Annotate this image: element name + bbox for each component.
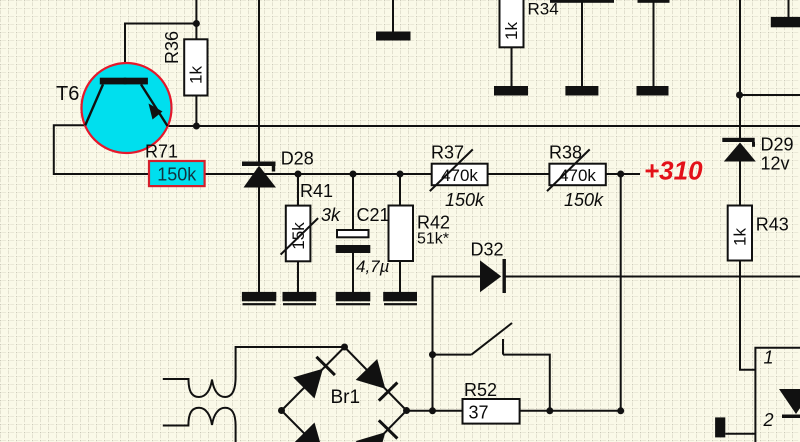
- node switch pivot: [429, 351, 436, 358]
- wire C21 bottom to ground: [352, 253, 354, 292]
- svg-text:R42: R42: [417, 213, 450, 233]
- wire D32 cathode to right edge: [505, 276, 800, 278]
- junction node dots: [193, 20, 743, 414]
- svg-text:51k*: 51k*: [417, 231, 449, 248]
- node bottom rail right: [617, 407, 624, 414]
- svg-text:D32: D32: [471, 240, 504, 260]
- bridge diode bottom-right: [356, 420, 398, 442]
- node bottom rail left: [429, 407, 436, 414]
- node bridge top: [341, 344, 348, 351]
- wire from node at (739.5,95) to right edge: [740, 94, 800, 96]
- wire lower rail R71 to R37: [205, 173, 432, 175]
- svg-text:1k: 1k: [187, 66, 206, 84]
- svg-text:R43: R43: [756, 215, 789, 235]
- wire stub top right: [788, 0, 790, 17]
- winding primary top: [163, 377, 236, 397]
- wire switch output: [503, 355, 550, 411]
- svg-text:R41: R41: [300, 181, 333, 201]
- wire D28 bottom to ground: [258, 187, 260, 293]
- svg-text:1k: 1k: [731, 228, 750, 246]
- wire switch pivot lead: [433, 354, 472, 356]
- wire main horizontal rail y=126: [166, 125, 800, 127]
- node bridge left: [278, 407, 285, 414]
- optocoupler box U outline: [755, 348, 800, 442]
- wire R41 bottom to ground: [297, 261, 299, 292]
- resistor R71 (highlighted): [149, 161, 205, 186]
- wire R52 to x=620 node: [520, 410, 621, 412]
- wire switch blade: [472, 323, 513, 355]
- capacitor plate bar near pin2: [715, 417, 725, 437]
- svg-text:2: 2: [763, 410, 774, 430]
- wire R41 top: [297, 174, 299, 206]
- top edge bar x=653 net: [638, 0, 670, 3]
- svg-text:R38: R38: [549, 143, 582, 163]
- svg-text:15k: 15k: [289, 222, 308, 250]
- wire R43 bottom to opto pin1: [740, 261, 755, 370]
- ground bar under x=393 stub: [376, 32, 411, 41]
- node bottom rail mid: [546, 407, 553, 414]
- node R41 top: [295, 171, 302, 178]
- wire bridge edge left-top: [282, 347, 345, 411]
- wire vertical through R36 top junction: [195, 0, 197, 39]
- svg-text:150k: 150k: [445, 190, 485, 210]
- wire T6 base up and right to junction: [125, 24, 196, 81]
- wire opto pin2: [725, 433, 755, 435]
- wire R42 bottom to ground: [399, 261, 401, 292]
- wire R42 top: [399, 174, 401, 206]
- wire T6 collector left and down to R71: [54, 125, 149, 174]
- diode D32: [480, 259, 506, 293]
- bridge diode bottom-left: [293, 423, 335, 442]
- wire vertical D28 net top: [258, 0, 260, 162]
- winding primary bottom: [163, 408, 236, 442]
- bridge rectifier Br1 diode top-left: [293, 357, 335, 399]
- resistor R38 (adjustable): [547, 149, 606, 191]
- svg-text:12v: 12v: [761, 154, 790, 174]
- wire stub x=653.5: [653, 3, 655, 87]
- resistor R37 (adjustable): [430, 149, 488, 191]
- wire bridge edge left-bottom: [282, 411, 345, 442]
- svg-text:R71: R71: [145, 142, 178, 162]
- bridge diode top-right: [356, 359, 398, 401]
- capacitor C21: [336, 230, 371, 253]
- wire bridge top node to winding: [236, 347, 345, 377]
- wire vertical from +310 node down: [620, 174, 622, 411]
- wire R36 bottom to main rail: [195, 96, 197, 127]
- svg-text:R37: R37: [431, 143, 464, 163]
- svg-text:C21: C21: [357, 205, 390, 225]
- wire D32 anode side: [433, 277, 481, 411]
- node R36 bottom on rail: [193, 123, 200, 130]
- svg-text:D29: D29: [761, 135, 794, 155]
- svg-text:1k: 1k: [502, 22, 521, 40]
- svg-text:3k: 3k: [321, 205, 341, 225]
- wire switch fixed contact: [502, 339, 504, 355]
- wire R38 to +310 node: [606, 173, 640, 175]
- node D29 top tap: [736, 92, 743, 99]
- top edge bar x=582 net: [550, 0, 614, 3]
- resistor R43: [728, 206, 752, 261]
- svg-text:37: 37: [469, 403, 489, 423]
- ground bar under x=582 stub: [565, 86, 598, 96]
- ground under C21: [336, 292, 371, 305]
- ground bar under R34: [494, 86, 528, 96]
- wire bridge edge top-right: [345, 347, 407, 411]
- resistor R34: [500, 0, 524, 47]
- svg-text:R52: R52: [464, 380, 497, 400]
- svg-text:150k: 150k: [564, 190, 604, 210]
- transistor T6: [82, 63, 172, 153]
- wire vertical D29/R43 net: [739, 0, 741, 138]
- node R42 top: [397, 171, 404, 178]
- ground under D28: [242, 292, 276, 305]
- svg-text:1: 1: [764, 348, 774, 368]
- node bridge right: [403, 407, 410, 414]
- node C21 top: [350, 171, 357, 178]
- ground bar under x=653 stub: [637, 86, 669, 96]
- resistor R52: [463, 399, 520, 424]
- node base/R36 top: [193, 20, 200, 27]
- svg-text:Br1: Br1: [331, 387, 361, 408]
- wire bridge edge bottom-right: [345, 411, 407, 442]
- wire stub to ground x=393 top: [392, 0, 394, 32]
- svg-text:150k: 150k: [157, 165, 197, 185]
- svg-text:4,7µ: 4,7µ: [356, 257, 390, 276]
- svg-text:470k: 470k: [559, 166, 596, 185]
- svg-text:+310: +310: [644, 156, 703, 186]
- svg-text:470k: 470k: [441, 166, 478, 185]
- opto internal diode: [779, 389, 800, 418]
- top right corner bar: [771, 17, 800, 27]
- svg-text:D28: D28: [281, 149, 314, 169]
- wire bottom rail bridge to R52: [407, 410, 463, 412]
- resistor R36: [184, 39, 207, 95]
- zener diode D28: [242, 162, 276, 188]
- wire C21 top: [352, 174, 354, 230]
- wire between R37 and R38: [488, 173, 550, 175]
- resistor R41 (adjustable): [281, 206, 319, 262]
- wire R34 bottom to ground: [511, 47, 513, 86]
- resistor R42: [389, 206, 414, 262]
- node +310: [617, 171, 624, 178]
- svg-text:R36: R36: [162, 31, 182, 64]
- ground under R42: [383, 292, 417, 305]
- ground under R41: [283, 292, 317, 305]
- zener diode D29: [722, 138, 756, 162]
- svg-text:T6: T6: [56, 83, 79, 105]
- wire stub x=582: [581, 3, 583, 87]
